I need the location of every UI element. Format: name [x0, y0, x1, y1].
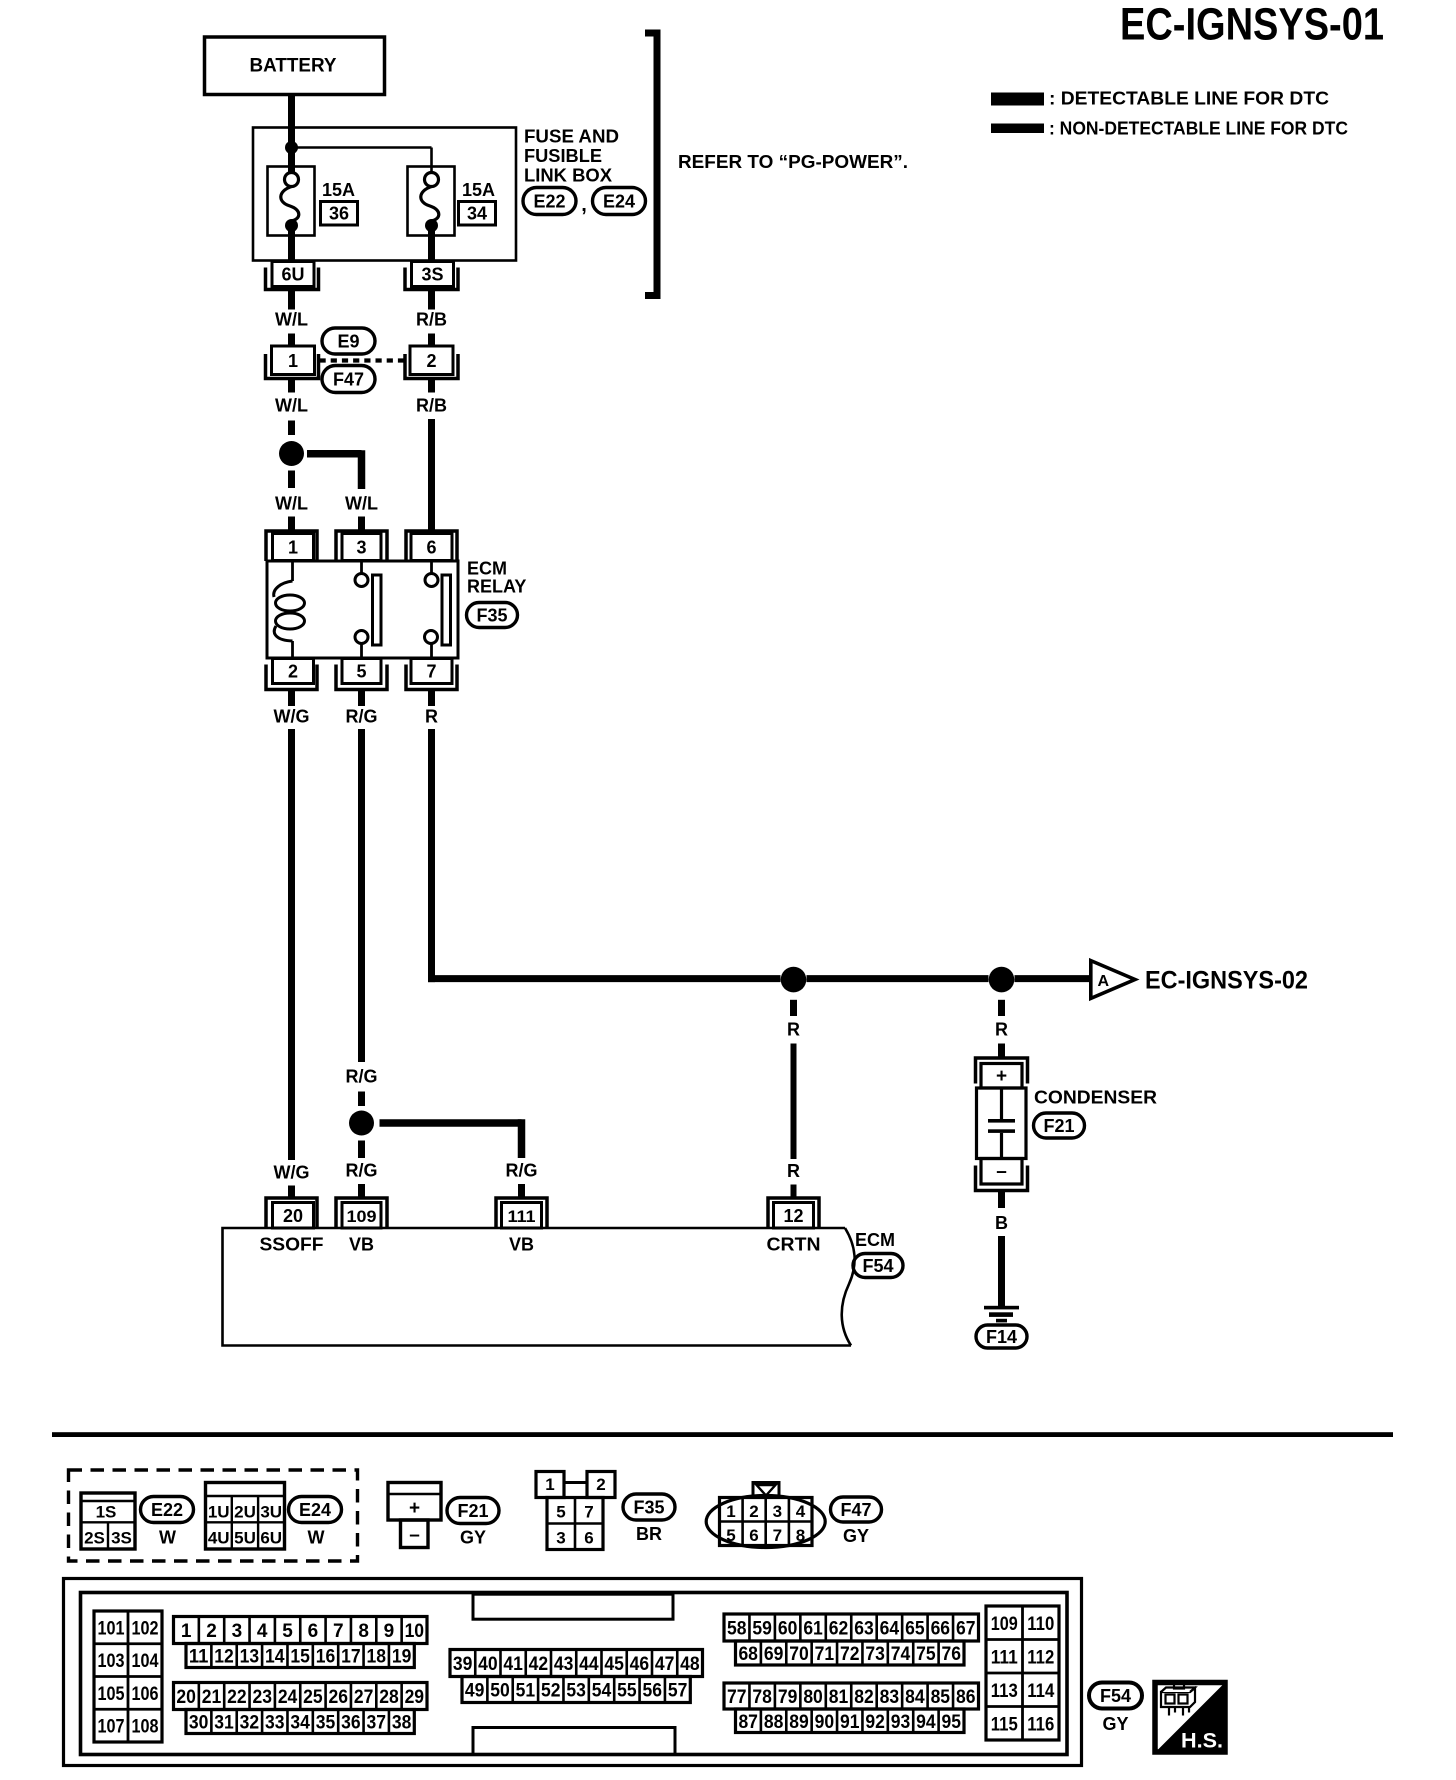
svg-text:26: 26	[329, 1687, 349, 1708]
svg-text:84: 84	[905, 1687, 925, 1708]
svg-text:R: R	[787, 1020, 800, 1040]
svg-text:2: 2	[596, 1475, 605, 1494]
svg-text:3S: 3S	[421, 265, 443, 285]
svg-text:78: 78	[752, 1687, 772, 1708]
connector ref F47 oval	[322, 366, 375, 393]
relay pin 1	[266, 531, 317, 561]
svg-text:93: 93	[891, 1712, 911, 1733]
svg-text:66: 66	[931, 1619, 951, 1640]
relay contact 3-5	[355, 561, 381, 658]
connector ref F21 oval (face)	[447, 1498, 499, 1548]
svg-text:12: 12	[214, 1647, 234, 1668]
svg-text:2U: 2U	[234, 1503, 256, 1522]
svg-text:1: 1	[545, 1475, 554, 1494]
svg-text:W/G: W/G	[274, 707, 310, 727]
svg-text:27: 27	[354, 1687, 374, 1708]
ECM box (torn edge)	[223, 1228, 855, 1346]
svg-text:75: 75	[916, 1644, 936, 1665]
svg-text:,: ,	[581, 194, 587, 216]
svg-text:3U: 3U	[260, 1503, 282, 1522]
wire relay 5 label R/G	[345, 690, 377, 727]
svg-text:1: 1	[181, 1621, 192, 1642]
svg-text:R: R	[995, 1020, 1008, 1040]
label ECM RELAY	[467, 559, 526, 597]
svg-text:GY: GY	[843, 1526, 869, 1546]
connector ref F21 oval	[1034, 1113, 1085, 1138]
svg-text:113: 113	[991, 1681, 1018, 1702]
relay contact 6-7	[425, 561, 451, 658]
svg-text:83: 83	[880, 1687, 900, 1708]
svg-text:7: 7	[584, 1503, 593, 1522]
svg-text:15A: 15A	[322, 180, 355, 200]
svg-text:E22: E22	[533, 192, 565, 212]
svg-text:63: 63	[854, 1619, 874, 1640]
node W/L splice	[279, 441, 304, 466]
svg-text:R/B: R/B	[416, 396, 447, 416]
svg-text:104: 104	[132, 1651, 159, 1672]
note REFER TO PG-POWER	[678, 152, 908, 172]
wire R splice A to ECM pin 12	[787, 1000, 800, 1197]
svg-text:SSOFF: SSOFF	[260, 1235, 324, 1255]
ground (earth)	[984, 1306, 1019, 1323]
ECM pin names	[260, 1235, 821, 1255]
svg-text:17: 17	[341, 1647, 361, 1668]
svg-text:33: 33	[265, 1713, 285, 1734]
svg-text:109: 109	[991, 1614, 1018, 1635]
svg-text:37: 37	[367, 1713, 387, 1734]
comma	[581, 194, 587, 216]
svg-text:58: 58	[727, 1619, 747, 1640]
terminal 3S	[405, 262, 458, 290]
svg-text:4: 4	[257, 1621, 268, 1642]
wire R splice B to condenser	[995, 1000, 1008, 1057]
wire W/G relay to ECM pin 20	[274, 729, 310, 1197]
svg-text:31: 31	[214, 1713, 234, 1734]
svg-text:H.S.: H.S.	[1181, 1730, 1223, 1753]
ECM connector top key	[473, 1594, 673, 1619]
ECM pins 1-10 row	[174, 1617, 428, 1644]
connector face E22	[81, 1493, 135, 1549]
svg-text:24: 24	[278, 1687, 298, 1708]
svg-text:F35: F35	[476, 606, 507, 626]
ECM pins 49-57 row	[462, 1677, 690, 1703]
node R splice A	[781, 967, 807, 993]
svg-text:80: 80	[803, 1687, 823, 1708]
svg-text:13: 13	[240, 1647, 260, 1668]
ECM connector outline	[64, 1579, 1082, 1766]
svg-text:115: 115	[991, 1714, 1018, 1735]
svg-text:2: 2	[288, 662, 298, 682]
ECM pins 87-95 row	[736, 1709, 965, 1733]
svg-text:11: 11	[189, 1647, 209, 1668]
svg-text:62: 62	[829, 1619, 849, 1640]
svg-text:91: 91	[840, 1712, 860, 1733]
svg-text:7: 7	[426, 662, 436, 682]
svg-text:+: +	[409, 1498, 420, 1519]
svg-text:8: 8	[358, 1621, 369, 1642]
svg-text:73: 73	[865, 1644, 885, 1665]
svg-text:48: 48	[680, 1654, 700, 1675]
svg-text:6: 6	[749, 1526, 758, 1545]
svg-text:12: 12	[783, 1206, 803, 1226]
connector ref E22 oval	[523, 188, 576, 215]
svg-text:CONDENSER: CONDENSER	[1034, 1088, 1157, 1108]
separator rule	[52, 1432, 1393, 1437]
ECM pin 111	[496, 1198, 547, 1228]
svg-text:65: 65	[905, 1619, 925, 1640]
wire pin2 to relay pin 6, R/B	[416, 379, 447, 531]
condenser plus terminal	[976, 1058, 1028, 1088]
svg-text:105: 105	[98, 1684, 125, 1705]
label ECM	[855, 1230, 895, 1250]
svg-text:25: 25	[303, 1687, 323, 1708]
svg-text:54: 54	[592, 1681, 612, 1702]
connector face F35	[536, 1472, 615, 1550]
bracket: refer to PG-POWER	[645, 33, 657, 296]
ECM pins 20-29 row	[174, 1683, 428, 1710]
svg-text:114: 114	[1027, 1681, 1054, 1702]
svg-text:R/G: R/G	[345, 707, 377, 727]
legend: detectable line for DTC	[991, 89, 1329, 109]
svg-text:F21: F21	[1043, 1116, 1074, 1136]
svg-text:ECM: ECM	[467, 559, 507, 579]
svg-text:W/G: W/G	[274, 1163, 310, 1183]
svg-text:CRTN: CRTN	[767, 1235, 821, 1255]
svg-text:F47: F47	[333, 370, 364, 390]
svg-text:BATTERY: BATTERY	[250, 55, 337, 77]
wire R relay 7 to page link (horizontal run)	[428, 729, 1089, 982]
svg-text:A: A	[1098, 973, 1110, 990]
svg-text:GY: GY	[1102, 1714, 1128, 1734]
svg-text:30: 30	[189, 1713, 209, 1734]
svg-text:2: 2	[206, 1621, 217, 1642]
svg-text:FUSE AND: FUSE AND	[524, 126, 619, 147]
svg-text:R/G: R/G	[345, 1161, 377, 1181]
wire 3S to E9 pin2, R/B	[416, 291, 447, 347]
svg-text:5: 5	[726, 1526, 735, 1545]
wire branch R/G to ECM pin 111	[380, 1119, 538, 1197]
svg-text:8: 8	[796, 1526, 805, 1545]
wire junction to fuse 34	[292, 148, 432, 175]
svg-text:4: 4	[796, 1502, 806, 1521]
svg-text:108: 108	[132, 1717, 159, 1738]
ECM pins 101-108 grid	[94, 1611, 162, 1742]
wire splice to relay pin 1, W/L dashed	[275, 471, 308, 531]
svg-text:R/B: R/B	[416, 310, 447, 330]
fuse 34 15A	[408, 167, 455, 236]
svg-text:36: 36	[329, 204, 349, 224]
svg-text:: DETECTABLE LINE FOR DTC: : DETECTABLE LINE FOR DTC	[1049, 89, 1329, 109]
svg-text:B: B	[995, 1213, 1008, 1233]
wire relay 2 label W/G	[274, 690, 310, 727]
ECM pin 109	[336, 1198, 387, 1228]
svg-text:68: 68	[738, 1644, 758, 1665]
svg-text:–: –	[409, 1525, 420, 1546]
svg-text:19: 19	[392, 1647, 412, 1668]
svg-text:34: 34	[467, 204, 487, 224]
svg-text:5: 5	[356, 662, 366, 682]
svg-text:51: 51	[516, 1681, 536, 1702]
svg-text:72: 72	[840, 1644, 860, 1665]
svg-text:1S: 1S	[96, 1503, 117, 1522]
svg-text:71: 71	[815, 1644, 835, 1665]
svg-text:F54: F54	[1100, 1686, 1131, 1706]
svg-text:87: 87	[738, 1712, 758, 1733]
svg-text:E24: E24	[603, 192, 635, 212]
svg-text:94: 94	[916, 1712, 936, 1733]
ECM relay box	[267, 561, 458, 658]
svg-text:F54: F54	[862, 1256, 893, 1276]
connector ref F54 oval	[853, 1254, 903, 1278]
svg-text:W: W	[308, 1528, 325, 1548]
svg-text:85: 85	[931, 1687, 951, 1708]
connector face F21	[388, 1483, 441, 1548]
svg-text:3: 3	[556, 1529, 565, 1548]
wire pin1 down, W/L dashed	[275, 379, 308, 436]
svg-text:14: 14	[265, 1647, 285, 1668]
svg-text:15: 15	[290, 1647, 310, 1668]
svg-text:5U: 5U	[234, 1529, 256, 1548]
svg-text:49: 49	[465, 1681, 485, 1702]
svg-text:110: 110	[1027, 1614, 1054, 1635]
label CONDENSER	[1034, 1088, 1157, 1108]
svg-text:20: 20	[283, 1206, 303, 1226]
svg-text:W/L: W/L	[345, 494, 378, 514]
svg-text:22: 22	[227, 1687, 247, 1708]
svg-text:E9: E9	[337, 332, 359, 352]
svg-text:116: 116	[1027, 1714, 1054, 1735]
connector ref F35 oval	[467, 603, 518, 628]
svg-text:43: 43	[554, 1654, 574, 1675]
wire fuse 36 to terminal 6U	[288, 226, 295, 263]
label FUSE AND FUSIBLE LINK BOX	[524, 126, 619, 186]
svg-text:103: 103	[98, 1651, 125, 1672]
svg-text:86: 86	[956, 1687, 976, 1708]
svg-text:F47: F47	[840, 1500, 871, 1520]
dashed group box (E22, E24)	[69, 1470, 358, 1561]
relay coil	[274, 561, 305, 658]
svg-text:82: 82	[854, 1687, 874, 1708]
condenser minus terminal	[976, 1159, 1028, 1191]
svg-text:95: 95	[942, 1712, 962, 1733]
label 15A / 36	[321, 180, 358, 225]
svg-text:106: 106	[132, 1684, 159, 1705]
svg-text:53: 53	[566, 1681, 586, 1702]
svg-text:+: +	[996, 1066, 1007, 1087]
svg-text:VB: VB	[349, 1235, 374, 1255]
svg-text:61: 61	[803, 1619, 823, 1640]
connector ref E24 oval	[593, 188, 646, 215]
connector ref E24 oval (face)	[289, 1497, 342, 1548]
connector pin 1 (E9/F47)	[266, 346, 319, 379]
svg-text:LINK BOX: LINK BOX	[524, 165, 613, 186]
svg-text:R/G: R/G	[345, 1067, 377, 1087]
connector ref E9 oval	[322, 328, 375, 354]
svg-text:EC-IGNSYS-02: EC-IGNSYS-02	[1145, 967, 1308, 995]
svg-text:6: 6	[308, 1621, 319, 1642]
svg-text:34: 34	[290, 1713, 310, 1734]
wire condenser to ground, B	[995, 1191, 1008, 1308]
wire relay 7 label R	[425, 690, 438, 727]
svg-text:39: 39	[453, 1654, 473, 1675]
relay pin 6	[406, 531, 457, 561]
svg-text:6: 6	[584, 1529, 593, 1548]
svg-text:101: 101	[98, 1618, 125, 1639]
ECM connector bottom key	[473, 1728, 675, 1755]
svg-text:3S: 3S	[111, 1529, 132, 1548]
svg-text:41: 41	[503, 1654, 523, 1675]
svg-text:7: 7	[773, 1526, 782, 1545]
svg-text:2: 2	[426, 351, 436, 371]
svg-text:W/L: W/L	[275, 310, 308, 330]
svg-text:109: 109	[347, 1207, 377, 1226]
svg-text:F21: F21	[457, 1501, 488, 1521]
svg-text:111: 111	[991, 1647, 1018, 1668]
svg-text:W: W	[159, 1528, 176, 1548]
svg-text:92: 92	[865, 1712, 885, 1733]
dashed pass-through link	[320, 358, 406, 362]
svg-text:2S: 2S	[84, 1529, 105, 1548]
svg-text:10: 10	[405, 1621, 425, 1642]
svg-text:40: 40	[478, 1654, 498, 1675]
svg-text:107: 107	[98, 1717, 125, 1738]
svg-text:74: 74	[891, 1644, 911, 1665]
svg-text:36: 36	[341, 1713, 361, 1734]
svg-text:3: 3	[773, 1502, 782, 1521]
svg-text:89: 89	[789, 1712, 809, 1733]
svg-text:55: 55	[617, 1681, 637, 1702]
ECM pins 39-48 row	[450, 1650, 703, 1677]
svg-text:21: 21	[202, 1687, 222, 1708]
terminal 6U	[266, 262, 319, 290]
svg-text:64: 64	[880, 1619, 900, 1640]
svg-text:79: 79	[778, 1687, 798, 1708]
wire battery to fuse box (W)	[288, 95, 295, 174]
svg-text:R: R	[787, 1161, 800, 1181]
connector ref F14 oval	[976, 1325, 1027, 1348]
legend: non-detectable line for DTC	[991, 119, 1348, 139]
svg-text:FUSIBLE: FUSIBLE	[524, 145, 602, 166]
svg-text:18: 18	[367, 1647, 387, 1668]
svg-text:52: 52	[541, 1681, 561, 1702]
svg-text:EC-IGNSYS-01: EC-IGNSYS-01	[1120, 0, 1384, 50]
node R splice B	[989, 967, 1015, 993]
svg-text:9: 9	[384, 1621, 395, 1642]
svg-text:20: 20	[176, 1687, 196, 1708]
connector face E24	[206, 1483, 285, 1550]
svg-text:81: 81	[829, 1687, 849, 1708]
ECM pins 77-86 row	[724, 1683, 979, 1709]
svg-text:E22: E22	[151, 1500, 183, 1520]
fuse and fusible link box	[253, 128, 516, 261]
svg-text:60: 60	[778, 1619, 798, 1640]
svg-text:E24: E24	[299, 1500, 331, 1520]
svg-text:38: 38	[392, 1713, 412, 1734]
connector ref F35 oval (face)	[623, 1494, 675, 1544]
condenser C (capacitor body)	[977, 1088, 1027, 1159]
H.S. inspection mark	[1153, 1680, 1227, 1754]
svg-text:77: 77	[727, 1687, 747, 1708]
svg-text:1: 1	[288, 351, 298, 371]
svg-text:W/L: W/L	[275, 396, 308, 416]
svg-text:F14: F14	[986, 1327, 1017, 1347]
ECM pins 30-38 row	[186, 1710, 414, 1734]
svg-text:35: 35	[316, 1713, 336, 1734]
svg-text:BR: BR	[636, 1524, 662, 1544]
svg-text:42: 42	[529, 1654, 549, 1675]
fuse 36 15A	[268, 167, 315, 236]
svg-text:56: 56	[643, 1681, 663, 1702]
svg-text:F35: F35	[633, 1498, 664, 1518]
svg-text:5: 5	[282, 1621, 293, 1642]
svg-text:6U: 6U	[281, 265, 304, 285]
svg-text:50: 50	[490, 1681, 510, 1702]
svg-text:: NON-DETECTABLE LINE FOR DTC: : NON-DETECTABLE LINE FOR DTC	[1049, 119, 1348, 139]
label 15A / 34	[459, 180, 496, 225]
svg-text:69: 69	[764, 1644, 784, 1665]
svg-text:4U: 4U	[208, 1529, 230, 1548]
svg-text:88: 88	[764, 1712, 784, 1733]
svg-text:REFER TO “PG-POWER”.: REFER TO “PG-POWER”.	[678, 152, 908, 172]
svg-text:VB: VB	[509, 1235, 534, 1255]
svg-text:GY: GY	[460, 1528, 486, 1548]
relay pin 5	[336, 659, 387, 690]
node R/G splice	[349, 1111, 374, 1136]
ECM pins 58-67 row	[724, 1614, 979, 1641]
ECM pin 12	[768, 1198, 819, 1228]
svg-text:67: 67	[956, 1619, 976, 1640]
svg-text:16: 16	[316, 1647, 336, 1668]
svg-text:R: R	[425, 707, 438, 727]
ECM pins 11-19 row	[186, 1644, 414, 1668]
svg-text:1: 1	[726, 1502, 735, 1521]
svg-text:ECM: ECM	[855, 1230, 895, 1250]
ECM pin 20	[266, 1198, 317, 1228]
connector pin 2 (E9/F47)	[405, 346, 458, 379]
svg-text:23: 23	[252, 1687, 272, 1708]
wire branch to relay pin 3, W/L	[307, 450, 378, 530]
connector ref F47 oval (face)	[831, 1497, 882, 1546]
svg-text:RELAY: RELAY	[467, 577, 526, 597]
svg-text:45: 45	[604, 1654, 624, 1675]
svg-text:112: 112	[1027, 1647, 1054, 1668]
svg-text:2: 2	[749, 1502, 758, 1521]
svg-text:111: 111	[508, 1207, 536, 1226]
svg-text:7: 7	[333, 1621, 344, 1642]
svg-text:6: 6	[426, 538, 436, 558]
svg-text:1: 1	[288, 538, 298, 558]
ECM pins 68-76 row	[736, 1641, 965, 1665]
svg-text:28: 28	[379, 1687, 399, 1708]
node: battery feed junction	[285, 141, 298, 154]
page arrow A to EC-IGNSYS-02	[1091, 961, 1308, 999]
battery	[205, 37, 385, 95]
svg-text:47: 47	[655, 1654, 675, 1675]
svg-text:1U: 1U	[208, 1503, 230, 1522]
svg-text:57: 57	[668, 1681, 688, 1702]
connector face F47	[706, 1483, 825, 1548]
wire splice to ECM pin 109, R/G	[345, 1141, 377, 1198]
svg-text:3: 3	[356, 538, 366, 558]
connector ref F54 oval (face)	[1089, 1683, 1142, 1735]
svg-text:70: 70	[789, 1644, 809, 1665]
relay pin 7	[406, 659, 457, 690]
svg-text:15A: 15A	[462, 180, 495, 200]
svg-text:76: 76	[942, 1644, 962, 1665]
svg-text:90: 90	[815, 1712, 835, 1733]
svg-text:44: 44	[579, 1654, 599, 1675]
ECM pins 109-116 grid	[986, 1606, 1059, 1740]
